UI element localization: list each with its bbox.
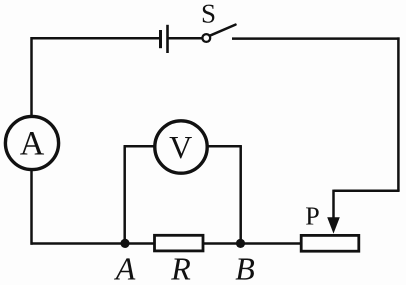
battery BT1 long plate [166,25,169,53]
switch S blade [210,25,236,36]
voltmeter branch right vertical [239,146,242,243]
wiper stem [332,190,335,221]
battery BT1 short plate [159,30,162,48]
ammeter A [5,116,58,169]
svg-text:S: S [201,0,216,29]
wire top-left horizontal [31,37,160,40]
svg-text:A: A [20,126,45,163]
svg-text:V: V [169,129,192,165]
svg-text:P: P [305,201,319,230]
svg-text:B: B [235,251,255,285]
voltmeter branch right horizontal [207,145,242,148]
voltmeter branch left vertical [123,146,126,243]
svg-text:R: R [170,251,191,285]
wiper arrowhead [327,217,340,233]
wire left vertical [30,37,33,245]
wire jog to wiper [334,190,400,193]
switch S pivot [202,34,210,42]
wire right vertical [397,37,400,191]
wire top-right horizontal [232,37,400,40]
voltmeter V [155,121,207,173]
resistor R box [155,235,204,251]
wire battery to switch [169,37,203,40]
wire bottom horizontal [31,242,302,245]
node A junction dot [120,239,129,248]
rheostat P box [301,235,359,251]
voltmeter branch left horizontal [124,145,156,148]
svg-text:A: A [114,251,136,285]
node B junction dot [236,239,245,248]
